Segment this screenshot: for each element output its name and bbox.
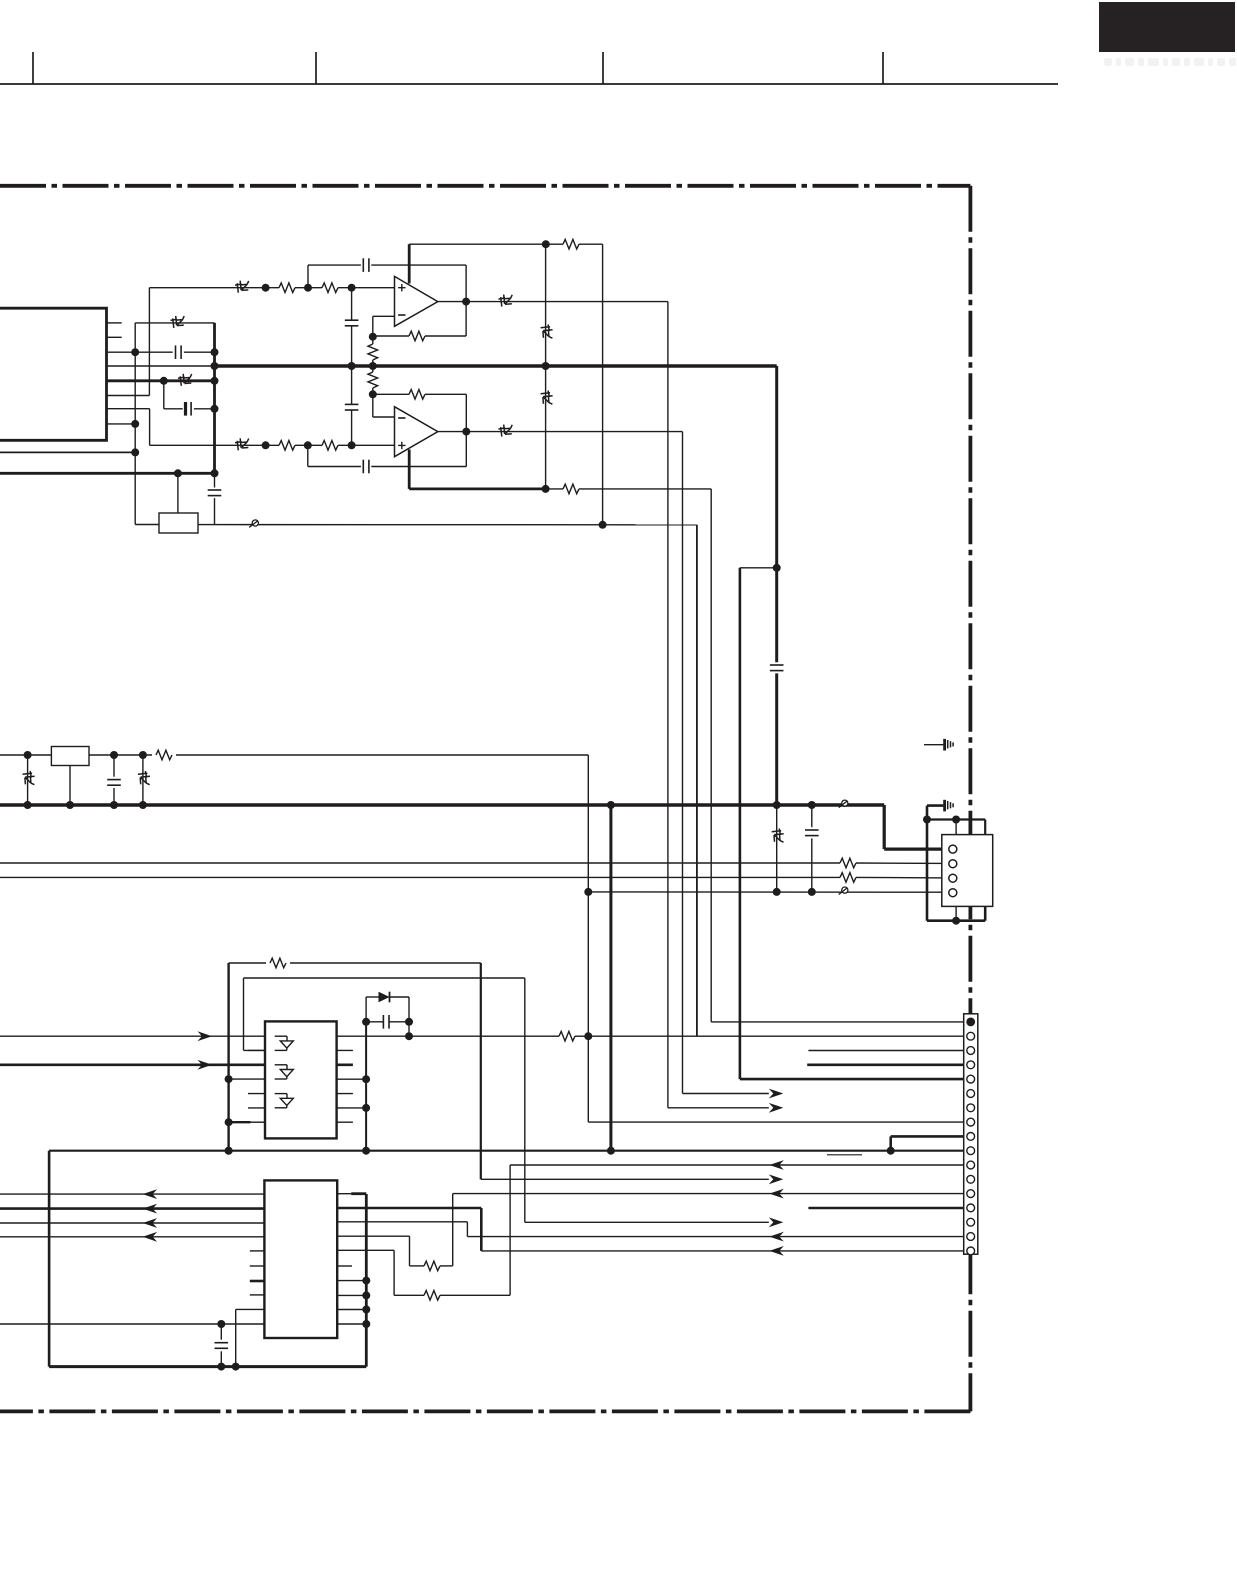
jumper JW2 — [171, 316, 185, 328]
arrow IC3 in3 — [143, 1218, 158, 1228]
page top rule — [0, 83, 1058, 85]
wire riser x149 upper — [148, 288, 150, 396]
IC2 stub right 3 — [337, 1093, 353, 1095]
wire CN1 pin stub top — [955, 820, 957, 835]
wire drop A out x667 — [667, 302, 669, 1108]
ferrite FB1 — [249, 520, 258, 528]
IC3 stub left 1 — [250, 1250, 265, 1252]
wire op-amp A +input — [149, 287, 279, 289]
capacitor C9 — [107, 779, 121, 781]
wire drop x588 — [587, 755, 589, 1122]
wire branch x114 — [113, 755, 115, 777]
IC3 stub left 4 — [250, 1294, 265, 1296]
wire fb rail B — [373, 393, 409, 395]
wire fb riser B — [465, 394, 467, 466]
junction dots gnd line — [217, 1147, 894, 1371]
junction dot x776 upper — [773, 564, 781, 572]
regulator X2 body — [51, 747, 89, 766]
wire IC3 in1 (arrow) — [0, 1193, 264, 1195]
wire U1a V+ (thick) — [408, 244, 411, 283]
IC1 pin stub 2 — [107, 336, 122, 338]
wire top link y322 — [135, 322, 214, 324]
wire CN2 line3 — [808, 1050, 966, 1052]
wire X2 bottom lead — [69, 766, 71, 806]
fold tick 1 — [32, 52, 34, 84]
capacitor C7 — [345, 403, 359, 405]
resistor R7 — [279, 441, 295, 451]
jumper JW9 — [23, 771, 35, 785]
junction dots mute line — [584, 888, 816, 896]
ground E2 — [945, 800, 954, 812]
wire CN1 shield loop (thick) — [926, 806, 929, 921]
resistor R13 — [840, 873, 856, 883]
buffer U2b — [275, 1065, 294, 1079]
wire drop x524 — [524, 978, 526, 1222]
arrow IC2 in1 — [198, 1031, 213, 1041]
wire loop A branch pin7 — [229, 1121, 251, 1123]
resistor R1 — [279, 283, 295, 293]
junction dots y755/y805 — [24, 751, 816, 809]
wire signal R y877 — [0, 876, 840, 878]
fold tick 2 — [315, 52, 317, 84]
wire fb rail A — [373, 335, 409, 337]
resistor R14 — [270, 958, 286, 968]
black title block — [1099, 2, 1235, 52]
wire U1b V- (thick) — [408, 450, 411, 489]
capacitor C5 — [345, 319, 359, 321]
wire IC3 in2 (thick arrow) — [0, 1207, 264, 1210]
IC3 stub left 3 (thick) — [250, 1280, 265, 1283]
IC2 stub left 3 — [248, 1107, 265, 1109]
wire trunk x214 lower — [214, 473, 216, 487]
diode D1 — [366, 996, 378, 998]
wire loop A branch pin4 — [229, 1078, 265, 1080]
IC IC1 body — [0, 308, 107, 440]
buffer U2a — [275, 1036, 294, 1050]
wire branch x27 — [27, 755, 29, 805]
wire CN2 line9 (thick) — [891, 1135, 967, 1138]
connector CN1 body — [942, 835, 993, 907]
connector CN1 pins — [949, 845, 957, 897]
board outline top (dash-dot) — [0, 184, 970, 188]
wire U1a -input — [373, 315, 395, 317]
wire CN2 line13 — [453, 1193, 967, 1195]
arrow CN2 line12 — [769, 1174, 784, 1184]
wire x366 mid — [365, 1022, 367, 1151]
jumper JW5 — [235, 438, 249, 450]
capacitor C3 — [208, 489, 222, 491]
wire IC1 pin7 — [107, 408, 150, 410]
resistor R8 — [322, 441, 338, 451]
junction dots IC2 outputs — [362, 1032, 592, 1112]
wire link x739-x776 — [740, 567, 777, 569]
capacitor C1 — [175, 345, 177, 359]
wire V- rail B (thick) — [409, 487, 545, 490]
connector CN2 pins — [966, 1018, 975, 1255]
wire IC3 in4 (arrow) — [0, 1236, 264, 1238]
wire U1a output — [438, 301, 668, 303]
jumper JW1 — [178, 374, 192, 386]
wire IC2 out1 — [337, 1035, 551, 1037]
wire fb riser A — [465, 265, 467, 336]
wire CN2 line11 — [510, 1164, 967, 1166]
wire cap branch x351 lower — [351, 366, 353, 404]
wire IC1 pin5 (thick) — [107, 379, 215, 382]
wire X1 left lead — [135, 524, 159, 526]
wire x776 lower seg — [776, 805, 778, 892]
wire rail y755 — [0, 754, 51, 756]
resistor R12 — [840, 858, 856, 868]
wire drop x739 (thick) — [739, 568, 742, 1079]
arrow CN2 line7 — [769, 1103, 784, 1113]
op-amp U1b — [395, 407, 438, 457]
wire cap rail B — [307, 445, 309, 466]
wire loop B — [243, 978, 245, 1050]
junction dots x366 mid — [362, 1018, 413, 1155]
capacitor C4 — [362, 258, 364, 272]
wire CN2 line14 (thick) — [808, 1207, 966, 1210]
arrow CN2 line16 — [769, 1232, 784, 1242]
wire op-amp B +input — [150, 444, 279, 446]
wire IC2 in1 (arrow) — [0, 1035, 265, 1037]
resistor R16 — [424, 1261, 440, 1271]
wire R17 run — [394, 1294, 424, 1296]
board outline right (dash-dot) — [969, 186, 973, 1412]
filter X1 body — [159, 513, 198, 533]
wire IC3 in3 (arrow) — [0, 1222, 264, 1224]
wire bus AVSS (thick) — [0, 472, 215, 475]
resistor R5 (upper divider) — [372, 337, 374, 344]
wire IC3 pin gnd left — [236, 1308, 265, 1310]
wire CN2 line4 (thick) — [807, 1064, 967, 1067]
IC IC2 body — [265, 1021, 337, 1138]
capacitor C8 — [770, 664, 784, 666]
arrow IC3 in4 — [143, 1232, 158, 1242]
wire bus step to CN1 (thick) — [883, 805, 886, 849]
IC IC3 body — [264, 1180, 337, 1338]
wire X1 right lead / ferrite line — [198, 524, 697, 526]
junction dots IC1 area — [131, 348, 606, 529]
IC2 stub right 2 (thick) — [337, 1064, 353, 1067]
ghost text row — [1104, 58, 1236, 66]
capacitor C6 — [362, 460, 364, 474]
wire IC1 pin3 — [107, 351, 173, 353]
IC3 stub right — [337, 1265, 352, 1267]
wire analog bus (very thick) — [215, 364, 777, 368]
wire riser x545 — [545, 244, 547, 489]
resistor R10 — [409, 390, 425, 400]
IC2 stub right 1 — [337, 1049, 353, 1051]
resistor R6 (lower divider) — [372, 366, 374, 372]
wire cap branch x811 — [811, 805, 813, 827]
wire IC1 pin4 to bus — [107, 365, 216, 367]
wire branch x142 — [142, 755, 144, 805]
wire loop A — [227, 963, 229, 1151]
IC1 pin stub 1 — [107, 322, 122, 324]
wire CN1 top rail — [927, 818, 985, 820]
wire CN2 line16 — [467, 1236, 966, 1238]
arrow CN2 line17 — [769, 1246, 784, 1256]
wire U1b -input — [373, 416, 395, 418]
wire riser x135 — [134, 323, 136, 525]
wire signal L y863 — [0, 862, 840, 864]
capacitor C10 — [805, 829, 819, 831]
wire riser x602 — [602, 244, 604, 525]
junction dots channel B — [262, 390, 550, 493]
wire U1b output — [438, 431, 683, 433]
resistor R11 — [156, 750, 172, 760]
wire IC3 out5 — [337, 1249, 394, 1251]
wire IC3 out3 — [337, 1221, 467, 1223]
wire gnd underline mark — [827, 1154, 862, 1156]
arrow CN2 line6 — [769, 1089, 784, 1099]
junction dots channel A — [262, 240, 550, 370]
wire link C2 branch — [163, 381, 165, 409]
ferrite FB3 — [839, 887, 848, 895]
wire R16 run — [410, 1265, 425, 1267]
resistor R2 — [322, 283, 338, 293]
ferrite FB2 — [839, 800, 848, 807]
arrow IC3 in1 — [143, 1189, 158, 1199]
IC2 stub left 2 — [248, 1093, 265, 1095]
wire power bus y805 (very thick) — [0, 803, 884, 806]
wire IC3 reset y1324 — [0, 1323, 264, 1325]
wire drop x610 (thick) — [609, 805, 612, 1151]
arrow CN2 line11 — [769, 1160, 784, 1170]
IC2 stub left 1 — [248, 1049, 265, 1051]
wire drop Vm x711 — [710, 489, 712, 1022]
wire drop x480 — [480, 963, 482, 1179]
arrow IC2 in2 — [198, 1060, 213, 1070]
arrow IC3 in2 — [143, 1204, 158, 1214]
fold tick 4 — [882, 52, 884, 84]
board outline bottom (dash-dot) — [0, 1410, 970, 1414]
wire IC3 out1 — [337, 1193, 351, 1195]
wire gnd loop right (thick) — [365, 1194, 368, 1367]
resistor R9 — [546, 488, 563, 490]
wire gnd loop left — [48, 1151, 51, 1367]
wire drop bus x776 (thick) — [775, 366, 778, 662]
capacitor C11 — [366, 1021, 383, 1023]
ground E1 — [924, 744, 943, 746]
junction dots CN1 loop — [923, 816, 960, 925]
jumper JW6 — [499, 425, 513, 437]
jumper JW10 — [138, 771, 150, 785]
wire IC3 out4 — [337, 1235, 409, 1237]
arrow CN2 line15 — [769, 1217, 784, 1227]
wire drop ferrite x696 — [696, 525, 698, 1036]
wire IC1 pin6 — [107, 395, 150, 397]
jumper JW7 — [541, 325, 553, 339]
wire gnd line y1150 — [49, 1150, 967, 1152]
wire riser x149 lower — [149, 409, 151, 446]
junction dots loop A — [225, 1075, 233, 1155]
fold tick 3 — [602, 52, 604, 84]
wire IC3 gnd pins — [337, 1280, 366, 1282]
arrow CN2 line13 — [769, 1189, 784, 1199]
wire IC3 out2 (thick) — [337, 1207, 481, 1210]
wire D1 frame — [365, 997, 367, 1022]
jumper JW4 — [499, 295, 513, 307]
junction dots IC3 left — [217, 1320, 225, 1328]
wire trunk x214 (thick) — [213, 323, 216, 473]
wire mute y892 — [588, 891, 949, 893]
wire IC1 pin8 — [107, 423, 136, 425]
wire cap branch x351 upper — [351, 288, 353, 321]
resistor R15 — [551, 1035, 559, 1037]
wire drop B out x682 — [682, 432, 684, 1094]
buffer U2c — [275, 1094, 294, 1108]
wire y452 — [0, 451, 135, 453]
IC3 stub left 2 — [250, 1265, 265, 1267]
IC2 stub right 4 — [337, 1121, 353, 1123]
jumper JW8 — [541, 391, 553, 405]
jumper JW3 — [235, 281, 249, 293]
wire CN2 line17 — [481, 1250, 967, 1252]
connector CN2 body — [964, 1014, 978, 1254]
wire CN1 pin stub bottom — [955, 906, 957, 920]
jumper JW11 — [772, 829, 784, 843]
wire V+ rail A — [409, 243, 546, 245]
wire X1 top lead — [177, 473, 179, 513]
capacitor C12 — [220, 1324, 222, 1340]
resistor R4 — [409, 331, 425, 341]
capacitor C2 (polarized) — [184, 402, 187, 416]
resistor R17 — [424, 1291, 440, 1301]
wire IC2 pin to x366 a — [337, 1078, 367, 1080]
junction dot bus x545 — [542, 362, 550, 370]
wire cap rail A — [307, 265, 309, 288]
op-amp U1a — [395, 276, 438, 326]
wire IC2 pin to x366 b — [337, 1107, 367, 1109]
resistor R3 — [546, 243, 563, 245]
wire IC2 in2 (thick arrow) — [0, 1064, 265, 1067]
